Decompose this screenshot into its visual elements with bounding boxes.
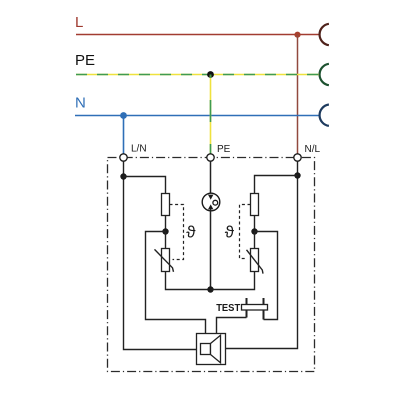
wire L bus — [76, 34, 319, 36]
buzzer H1 — [197, 334, 226, 365]
wire N/L dot to R2 — [255, 176, 298, 194]
svg-text:N: N — [75, 95, 86, 112]
wire PE bus (green dashes) — [76, 74, 319, 76]
terminal L/N — [120, 154, 127, 161]
enclosure dash-dot box — [108, 158, 315, 372]
wire L drop to N/L terminal — [297, 35, 299, 154]
node N junction — [120, 112, 127, 119]
wire L/N dot to R1 — [124, 177, 166, 194]
wire V1 to PE node — [166, 272, 211, 290]
wire spark gap to PE node — [210, 209, 212, 290]
svg-text:ϑ: ϑ — [225, 223, 235, 242]
node L/N branch dot — [120, 173, 126, 179]
wire N bus — [75, 115, 319, 117]
wire right node to TEST button — [255, 232, 278, 320]
wire R1 to node — [165, 216, 167, 232]
thermal coupling dashed link left — [170, 205, 184, 260]
terminal N/L — [294, 154, 301, 161]
svg-text:PE: PE — [217, 144, 231, 155]
wire node to V2 — [254, 232, 256, 249]
wire node to V1 — [165, 232, 167, 249]
svg-text:L/N: L/N — [131, 144, 147, 155]
wire PE drop (green dashes) — [210, 75, 212, 154]
svg-text:N/L: N/L — [305, 144, 321, 155]
varistor V2 — [247, 249, 264, 274]
wire PE terminal to spark gap — [210, 161, 212, 195]
wire N drop to L/N terminal — [123, 116, 125, 154]
connector arc N — [320, 105, 329, 126]
wire PE drop (yellow base) — [210, 75, 212, 154]
wire TEST left plunger to buzzer — [217, 318, 247, 334]
svg-text:ϑ: ϑ — [186, 223, 196, 242]
spark gap F1 (gas discharge tube) — [202, 193, 220, 211]
thermal coupling dashed link right — [240, 205, 251, 259]
wire left node to buzzer top-left — [146, 232, 206, 334]
svg-text:L: L — [75, 14, 83, 31]
node PE junction — [207, 71, 214, 78]
wire PE bus (yellow base) — [76, 74, 319, 76]
test button S1 — [242, 298, 268, 320]
connector arc L — [320, 24, 329, 45]
node left branch dot — [162, 228, 168, 234]
svg-text:PE: PE — [75, 52, 95, 69]
connector arc PE — [320, 64, 329, 85]
resistor R2 (thermal disconnector) — [251, 194, 259, 216]
node N/L branch dot — [294, 172, 300, 178]
resistor R1 (thermal disconnector) — [162, 194, 170, 216]
node L junction — [294, 32, 300, 38]
node PE bottom dot — [207, 286, 213, 292]
wire V2 to PE node — [211, 272, 255, 290]
varistor V1 — [155, 249, 174, 272]
terminal PE — [207, 154, 214, 161]
wire R2 to node — [254, 216, 256, 232]
wire L/N vertical to buzzer — [124, 161, 197, 349]
wire N/L vertical to buzzer — [226, 161, 298, 348]
svg-text:TEST: TEST — [216, 302, 241, 314]
node right branch dot — [251, 228, 257, 234]
